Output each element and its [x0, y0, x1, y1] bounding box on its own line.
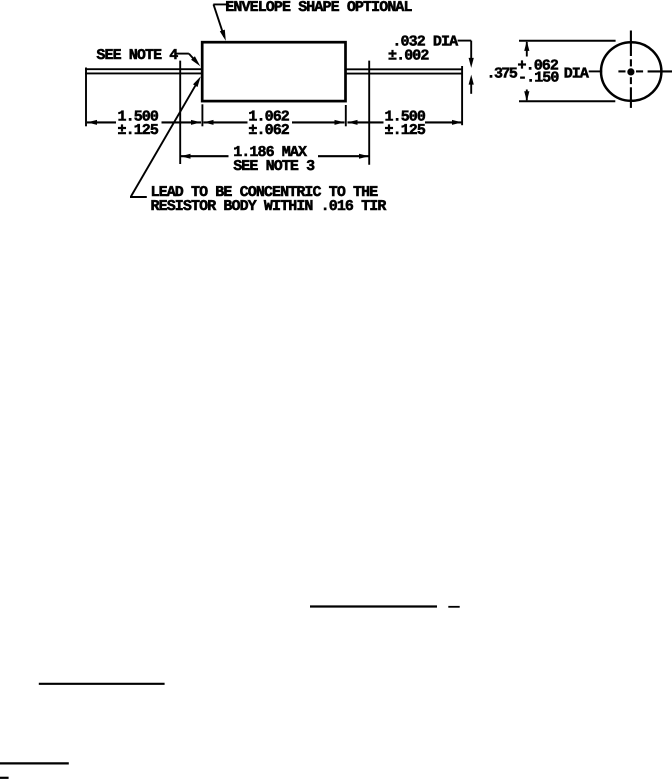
- centerline vertical dash upper: [630, 59, 632, 66]
- svg-text:±.002: ±.002: [388, 47, 429, 64]
- centerline vertical seg1: [630, 31, 632, 57]
- extension line body left edge: [201, 104, 203, 126]
- extension line at right lead end: [461, 66, 463, 125]
- svg-text:.375: .375: [487, 66, 518, 83]
- tangent line bottom: [519, 100, 615, 102]
- arrow 1.500 left outer: [87, 120, 97, 125]
- extension line at left lead end: [85, 68, 87, 127]
- centerline vertical dash lower: [630, 77, 632, 84]
- centerline horizontal seg right: [648, 70, 672, 72]
- right lead top edge: [346, 68, 462, 70]
- arrow envelope leader: [220, 30, 226, 41]
- dim line 1.500 right seg a: [348, 121, 384, 123]
- leader .032 vertical lower: [470, 79, 472, 94]
- dim line 1.186 seg b: [318, 155, 369, 157]
- centerline horizontal dash left: [618, 70, 625, 72]
- left lead top edge: [85, 68, 202, 70]
- underline signature: [310, 605, 437, 607]
- centerline vertical seg2: [630, 87, 632, 108]
- svg-text:-.150: -.150: [518, 70, 559, 87]
- tick bottom edge: [0, 777, 9, 779]
- centerline horizontal dash right: [636, 70, 643, 72]
- leader DIA to circle: [589, 70, 603, 72]
- svg-text:SEE NOTE 3: SEE NOTE 3: [233, 158, 315, 175]
- resistor body outline: [202, 42, 345, 101]
- leader envelope horizontal: [213, 3, 229, 5]
- arrow 1.500 right inner: [348, 120, 358, 125]
- arrow see-note-4 leader: [191, 56, 200, 66]
- arrow 1.062 right: [335, 120, 345, 125]
- svg-text:RESISTOR BODY WITHIN .016 TIR: RESISTOR BODY WITHIN .016 TIR: [151, 198, 387, 215]
- leader envelope diagonal: [214, 4, 225, 36]
- dim line .375 lower: [526, 90, 528, 101]
- leader concentric tail: [130, 196, 147, 198]
- dim line 1.062 seg a: [204, 121, 248, 123]
- underline bottom-left: [0, 762, 69, 764]
- dim line 1.500 left seg a: [87, 121, 116, 123]
- leader .032 vertical upper: [470, 41, 472, 63]
- arrow .375 bottom: [524, 91, 529, 101]
- svg-text:±.125: ±.125: [118, 122, 159, 139]
- arrow .375 top: [524, 41, 529, 51]
- dash after signature: [448, 606, 459, 608]
- arrow 1.500 right outer: [452, 120, 462, 125]
- arrow 1.186 left: [181, 154, 191, 159]
- dim line .375 upper: [526, 42, 528, 57]
- arrow 1.186 right: [359, 154, 369, 159]
- leader see-note-4 horizontal: [175, 53, 189, 55]
- arrow concentric leader: [193, 76, 201, 87]
- tangent line top: [519, 40, 616, 42]
- dim line 1.500 right seg b: [425, 121, 462, 123]
- left lead bottom edge: [85, 72, 202, 74]
- center mark dot: [627, 68, 634, 75]
- underline left: [39, 683, 165, 685]
- svg-text:±.062: ±.062: [248, 122, 289, 139]
- lead end view circle: [601, 42, 661, 101]
- extension line body right edge: [345, 105, 347, 126]
- dim line 1.500 left seg b: [162, 121, 202, 123]
- svg-text:DIA: DIA: [564, 66, 589, 83]
- svg-text:ENVELOPE SHAPE OPTIONAL: ENVELOPE SHAPE OPTIONAL: [225, 0, 412, 16]
- arrow 1.500 left inner: [191, 120, 201, 125]
- right lead bottom edge: [346, 73, 462, 75]
- leader concentric diagonal: [131, 83, 197, 197]
- arrow .032 top: [469, 58, 474, 68]
- leader see-note-4 diagonal: [189, 54, 196, 62]
- leader .032 horizontal: [458, 40, 472, 42]
- svg-text:SEE NOTE 4: SEE NOTE 4: [96, 47, 178, 64]
- arrow .032 bottom: [469, 75, 474, 85]
- extension line 1.186 right: [368, 61, 370, 165]
- dim line 1.062 seg b: [292, 121, 345, 123]
- svg-text:±.125: ±.125: [385, 122, 426, 139]
- extension line 1.186 left: [179, 61, 181, 164]
- dim line 1.186 seg a: [181, 155, 229, 157]
- arrow 1.062 left: [204, 120, 214, 125]
